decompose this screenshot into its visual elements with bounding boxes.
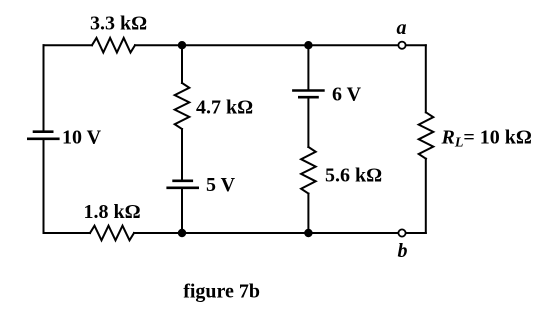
resistor R 5.6k zigzag <box>301 147 316 194</box>
svg-text:b: b <box>398 240 408 262</box>
terminal b open circle <box>398 229 405 236</box>
wire branch2 lower <box>307 194 309 234</box>
wire bottom left segment <box>44 232 91 234</box>
svg-text:4.7 kΩ: 4.7 kΩ <box>196 97 253 119</box>
battery V3 6V long plate <box>293 89 323 92</box>
wire branch1 lower <box>181 189 183 233</box>
resistor R 1.8k zigzag <box>90 226 134 241</box>
battery V1 10V short plate <box>34 130 52 133</box>
wire top right segment after terminal a <box>406 44 426 46</box>
wire right lower vertical <box>425 159 427 233</box>
battery V2 5V long plate <box>168 187 198 190</box>
wire bottom right segment after terminal b <box>406 232 426 234</box>
svg-text:1.8 kΩ: 1.8 kΩ <box>84 201 141 223</box>
wire branch1 middle <box>181 129 183 180</box>
wire branch2 middle <box>307 98 309 147</box>
resistor R 3.3k zigzag <box>92 38 135 53</box>
resistor R 4.7k zigzag <box>175 83 190 129</box>
wire branch2 upper <box>307 45 309 89</box>
wire top middle segment <box>135 44 398 46</box>
wire right upper vertical <box>425 45 427 112</box>
svg-text:6 V: 6 V <box>332 84 362 106</box>
resistor RL zigzag <box>419 112 434 158</box>
wire branch1 upper <box>181 45 183 83</box>
node junction dot top branch2 <box>304 41 312 49</box>
wire bottom middle segment <box>134 232 398 234</box>
node junction dot top branch1 <box>178 41 186 49</box>
svg-text:5 V: 5 V <box>206 174 236 196</box>
svg-text:10 V: 10 V <box>62 126 102 148</box>
wire top left segment <box>44 44 93 46</box>
svg-text:RL= 10 kΩ: RL= 10 kΩ <box>441 127 532 151</box>
node junction dot bottom branch1 <box>178 229 186 237</box>
svg-text:5.6 kΩ: 5.6 kΩ <box>325 165 382 187</box>
battery V2 5V short plate <box>174 180 192 183</box>
battery V1 10V long plate <box>28 138 58 141</box>
svg-text:figure 7b: figure 7b <box>183 280 260 302</box>
svg-text:a: a <box>397 17 407 39</box>
battery V3 6V short plate <box>299 96 317 99</box>
wire left lower vertical <box>43 140 45 233</box>
node junction dot bottom branch2 <box>304 229 312 237</box>
svg-text:3.3 kΩ: 3.3 kΩ <box>90 13 147 35</box>
terminal a open circle <box>398 42 405 49</box>
wire left upper vertical <box>43 45 45 130</box>
